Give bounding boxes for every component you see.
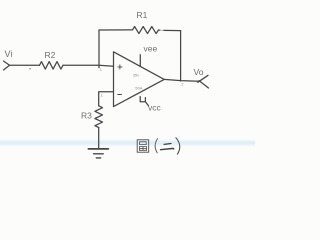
input terminal Vi	[4, 61, 10, 70]
output terminal Vo	[198, 75, 209, 88]
feedback vertical wire	[180, 31, 182, 81]
pale blue scan band	[0, 139, 255, 147]
svg-text:vee: vee	[144, 44, 158, 54]
wire -input to R3	[99, 92, 114, 106]
svg-text:R1: R1	[137, 10, 148, 20]
svg-text:Vo: Vo	[194, 67, 204, 77]
svg-text:35v: 35v	[133, 72, 139, 77]
wire Vi to R2	[10, 64, 40, 66]
ground symbol	[88, 148, 108, 150]
caption figure (2)	[137, 140, 149, 152]
wire R3 to ground	[98, 128, 100, 149]
svg-text:vcc: vcc	[148, 102, 162, 112]
wire junction up to feedback	[98, 30, 100, 68]
resistor R3	[95, 106, 103, 128]
tiny dot on input wire	[29, 68, 30, 69]
caption close paren	[176, 138, 180, 155]
caption open paren	[155, 139, 157, 153]
vee supply pin	[139, 55, 141, 67]
scanned page background	[0, 0, 255, 167]
svg-text:50A: 50A	[135, 85, 142, 90]
svg-text:Vi: Vi	[5, 49, 13, 59]
caption character er (two)	[164, 143, 171, 146]
wire top to R1	[99, 29, 133, 31]
op-amp - input mark	[118, 94, 122, 96]
caption glyph tu (figure) outer box	[137, 140, 149, 152]
op-amp + input mark	[118, 65, 122, 69]
op-amp U1 triangle	[114, 52, 165, 107]
output wire	[164, 79, 199, 81]
vcc supply pin hook	[140, 97, 148, 106]
resistor R2	[40, 62, 64, 70]
svg-text:R3: R3	[81, 111, 92, 121]
resistor R1	[133, 27, 159, 34]
wire R1 to corner (with scan gap)	[159, 29, 161, 31]
wire R2 to +input junction	[63, 65, 114, 66]
caption glyph inner strokes	[140, 142, 147, 145]
svg-text:R2: R2	[45, 50, 56, 60]
faint gap segment in feedback wire	[160, 29, 164, 31]
